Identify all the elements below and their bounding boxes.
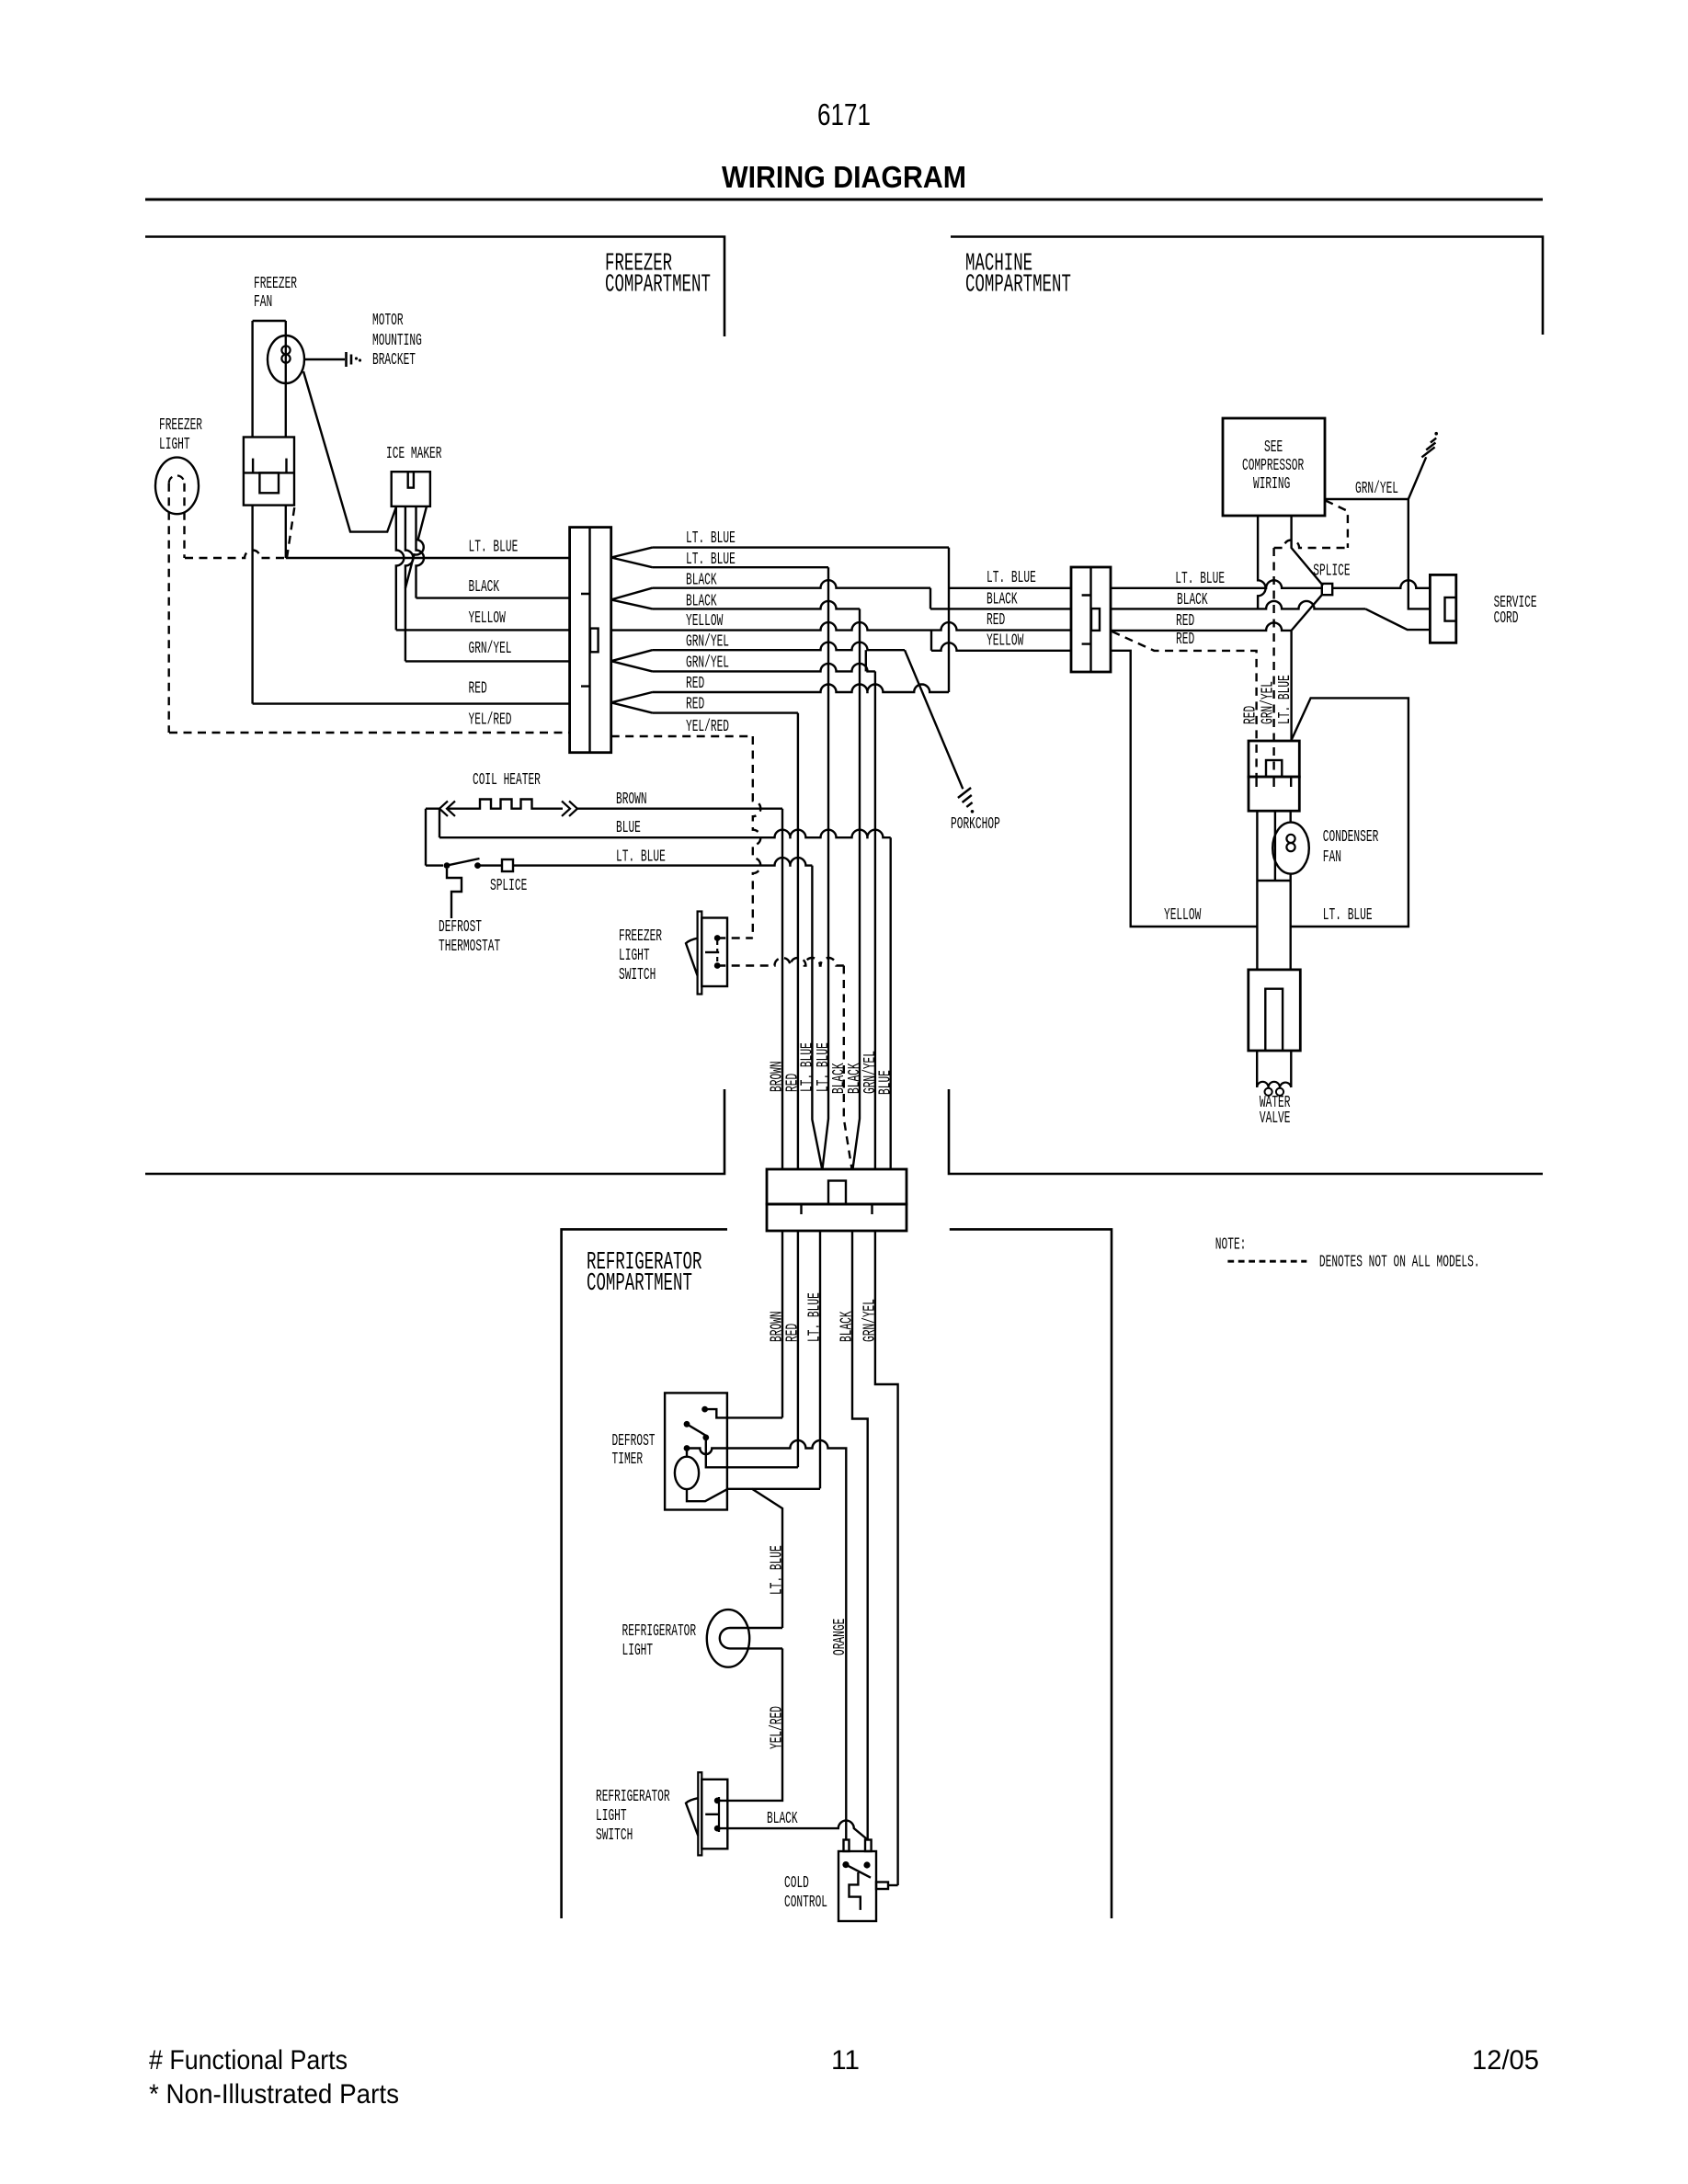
svg-text:* Non-Illustrated Parts: * Non-Illustrated Parts [149,2079,399,2110]
wire switch top contact to YEL/RED (dashed) [717,937,753,938]
splice crimp GRN/YEL pair [611,650,653,671]
svg-text:SEE: SEE [1264,438,1283,457]
svg-text:BLUE: BLUE [877,1070,895,1095]
wire BROWN below connector [781,1231,783,1417]
svg-text:GRN/YEL: GRN/YEL [686,633,729,652]
svg-text:SWITCH: SWITCH [596,1826,633,1845]
wire BLACK vertical solid [853,609,860,1168]
svg-text:RED: RED [987,611,1005,630]
svg-text:FAN: FAN [254,293,272,312]
svg-text:RED: RED [1242,706,1260,724]
svg-text:YELLOW: YELLOW [686,612,723,631]
svg-text:COMPARTMENT: COMPARTMENT [587,1270,692,1298]
refrigerator light switch [698,1772,701,1855]
wire RED row [253,702,570,704]
svg-text:MOTOR: MOTOR [372,312,404,330]
freezer light switch [698,912,702,995]
wire splice to LT. BLUE vertical [1292,595,1322,741]
svg-text:ORANGE: ORANGE [831,1619,850,1655]
svg-text:COMPARTMENT: COMPARTMENT [965,271,1071,299]
wire BLACK switch to cold control [717,1821,868,1840]
svg-text:YEL/RED: YEL/RED [686,718,729,736]
connector freezer [570,528,611,753]
wire splice to service cord LT. BLUE [1332,580,1430,588]
splice crimp RED pair [611,692,653,713]
wire GRN/YEL vertical [874,671,876,1169]
cold control [838,1851,876,1921]
svg-text:YEL/RED: YEL/RED [469,711,512,730]
wire BLACK row 1 [653,580,931,588]
svg-text:LT. BLUE: LT. BLUE [806,1292,825,1342]
defrost timer motor [686,1449,688,1457]
wire machine RED dashed [1112,631,1257,777]
ice maker pin 4 wire joining pin 2 [405,506,427,588]
ice maker pin 3 wire to BLACK row [416,506,425,598]
svg-text:DENOTES NOT ON ALL MODELS.: DENOTES NOT ON ALL MODELS. [1319,1254,1480,1272]
svg-text:BROWN: BROWN [616,791,647,809]
freezer light [155,458,199,515]
svg-text:FREEZER: FREEZER [619,927,662,946]
wire machine LT. BLUE to splice [1111,580,1322,588]
machine compartment border top [951,237,1543,336]
svg-text:LIGHT: LIGHT [159,436,190,454]
freezer compartment border bottom [145,1089,724,1174]
wire YELLOW drop at x1013 [930,631,932,651]
wire ORANGE from timer [687,1440,846,1840]
svg-text:GRN/YEL: GRN/YEL [861,1299,879,1342]
svg-text:BLACK: BLACK [469,578,500,597]
service cord [1430,574,1455,643]
wire compressor box left output [1258,516,1266,609]
wire GRN/YEL dashed from compressor box [1326,501,1348,549]
svg-text:MOUNTING: MOUNTING [372,332,422,350]
svg-text:VALVE: VALVE [1260,1109,1291,1128]
coil heater circuit left side [426,809,439,866]
freezer fan motor [268,336,304,383]
svg-text:FAN: FAN [1323,848,1341,867]
svg-text:SPLICE: SPLICE [1313,562,1350,580]
wire compressor box right output to splice [1292,516,1323,586]
svg-text:LT. BLUE: LT. BLUE [616,848,666,867]
wire RED below connector [797,1231,799,1467]
water valve coil [1257,1082,1291,1087]
freezer fan bracket box [244,438,294,506]
svg-text:LT. BLUE: LT. BLUE [1175,570,1225,588]
refrigerator compartment border left [562,1229,727,1918]
connector refrigerator harness [767,1169,907,1204]
wire freezer light left lead YEL/RED (dashed) [167,483,169,733]
svg-text:GRN/YEL: GRN/YEL [1355,480,1398,498]
svg-text:LT. BLUE: LT. BLUE [1276,675,1295,724]
svg-text:WIRING DIAGRAM: WIRING DIAGRAM [722,160,966,194]
wire BLUE vertical [890,837,892,1169]
wire LT. BLUE loop [1291,698,1409,927]
svg-text:COLD: COLD [784,1874,809,1893]
splice (machine) [1322,584,1332,595]
svg-text:LIGHT: LIGHT [596,1807,627,1826]
svg-text:CONTROL: CONTROL [784,1894,827,1912]
connector machine [1071,567,1111,672]
wire YEL/RED vertical (dashed) [753,736,761,938]
wire motor to ice maker pin 1 [303,371,396,532]
wire machine LT. BLUE row [949,587,1071,589]
svg-text:# Functional Parts: # Functional Parts [149,2045,348,2076]
svg-text:LT. BLUE: LT. BLUE [987,569,1036,587]
svg-text:LIGHT: LIGHT [622,1642,654,1660]
wire LT. BLUE vertical 2 [823,567,828,1168]
splice crimp LT. BLUE pair [611,548,653,568]
svg-text:LT. BLUE: LT. BLUE [769,1545,787,1595]
ice maker [392,472,430,506]
title rule [145,199,1543,201]
svg-text:LT. BLUE: LT. BLUE [686,529,736,548]
wire BLACK row [416,597,570,598]
svg-text:6171: 6171 [817,97,871,131]
svg-text:WIRING: WIRING [1253,475,1290,494]
svg-text:CONDENSER: CONDENSER [1323,828,1379,847]
svg-text:COMPRESSOR: COMPRESSOR [1242,457,1304,475]
freezer compartment border top [145,237,724,337]
wire GRN/YEL row 2 down to bundle [653,664,875,672]
wire YEL/RED row to connector (dashed) [169,732,570,734]
wire to porkchop [905,650,963,789]
svg-text:REFRIGERATOR: REFRIGERATOR [596,1788,670,1806]
wire machine YELLOW row [931,643,1071,651]
wire YELLOW row [396,629,570,631]
svg-text:BLACK: BLACK [838,1311,857,1342]
svg-text:GRN/YEL: GRN/YEL [686,654,729,673]
splice crimp BLACK pair [611,588,653,609]
wire LT. BLUE to refrigerator light [752,1489,782,1628]
see compressor wiring box [1223,418,1325,516]
wire machine BLACK row [930,608,1071,609]
svg-text:TIMER: TIMER [612,1450,644,1469]
wire BLACK below connector [852,1231,868,1840]
svg-text:CORD: CORD [1494,609,1519,628]
svg-text:RED: RED [686,675,704,693]
svg-text:LT. BLUE: LT. BLUE [1323,906,1373,925]
wire GRN/YEL to ground [1325,457,1426,499]
wire machine RED solid [1111,622,1292,631]
svg-text:LIGHT: LIGHT [619,947,650,965]
wire BLACK vertical dashed [844,966,852,1169]
svg-text:DEFROST: DEFROST [612,1432,656,1450]
freezer fan rails [253,321,286,438]
svg-text:REFRIGERATOR: REFRIGERATOR [622,1622,697,1641]
wire fan right rail to LT.BLUE row [285,506,287,558]
ice maker pin 1 wire to YELLOW row [396,506,405,631]
svg-text:RED: RED [1176,631,1194,649]
wire LT. BLUE thermostat row [426,864,443,866]
condenser fan [1257,811,1290,970]
svg-text:NOTE:: NOTE: [1215,1236,1247,1255]
svg-text:THERMOSTAT: THERMOSTAT [439,938,500,956]
wire BROWN vertical [781,809,783,1169]
wire BLACK row 2 down to bundle [653,601,861,609]
svg-text:SPLICE: SPLICE [490,877,527,895]
wire GRN/YEL row [405,660,570,662]
svg-text:ICE MAKER: ICE MAKER [386,445,442,463]
wire LT. BLUE vertical 1 [812,866,822,1168]
wire LT. BLUE row [286,557,570,559]
svg-text:FREEZER: FREEZER [159,416,202,435]
svg-text:GRN/YEL: GRN/YEL [1260,681,1278,724]
wire LT. BLUE row 1 to machine connector [653,546,950,548]
coil heater element BROWN row [426,808,428,810]
svg-text:BRACKET: BRACKET [372,351,416,370]
svg-text:FREEZER: FREEZER [254,275,297,293]
svg-text:YEL/RED: YEL/RED [769,1706,787,1749]
svg-text:RED: RED [686,696,704,714]
porkchop ground symbol [958,788,973,807]
wire motor to bracket [304,358,345,360]
svg-text:YELLOW: YELLOW [987,632,1023,651]
ground symbol (service ground) [1421,438,1436,458]
svg-text:GRN/YEL: GRN/YEL [469,640,512,658]
svg-text:BLUE: BLUE [616,819,641,837]
ice maker pin 2 wire to GRN/YEL row [405,506,414,662]
svg-text:RED: RED [783,1324,802,1342]
wire GRN/YEL row 1 [653,643,906,651]
svg-text:PORKCHOP: PORKCHOP [951,815,1000,834]
motor mounting bracket ground [347,352,352,367]
svg-text:COIL HEATER: COIL HEATER [473,771,541,790]
svg-text:12/05: 12/05 [1472,2045,1539,2076]
wire GRN/YEL to service cord [1409,499,1431,609]
defrost timer [665,1393,727,1509]
svg-text:BLACK: BLACK [1177,591,1208,609]
wire freezer light right lead (dashed) [183,483,185,558]
wire YEL/RED dashed right of connector [611,735,753,737]
wire LT. BLUE below connector [819,1231,821,1488]
wire RED vertical [797,713,799,1169]
svg-text:RED: RED [469,680,487,699]
svg-text:DEFROST: DEFROST [439,918,482,937]
svg-text:YELLOW: YELLOW [1164,906,1201,925]
svg-text:YELLOW: YELLOW [469,609,506,628]
wire machine BLACK to service cord [1111,601,1365,609]
wire switch bottom contact to BLACK (dashed) [717,958,844,966]
wire GRN/YEL below connector [875,1231,898,1885]
wire RED row 2 down to bundle [653,711,798,713]
svg-text:11: 11 [831,2045,860,2076]
wire YELLOW/RED through row [611,622,1071,631]
wire YEL/RED light to switch [717,1648,782,1801]
defrost thermostat [444,862,451,869]
wire fan left rail to RED row [251,506,253,704]
machine compartment border bottom [949,1089,1543,1174]
svg-text:BLACK: BLACK [987,591,1018,609]
splice (defrost thermostat) [502,859,513,871]
wire machine YELLOW down [1111,651,1257,927]
refrigerator compartment border right [950,1229,1112,1918]
svg-text:SWITCH: SWITCH [619,966,656,984]
wire BLUE row [439,830,891,838]
connector compressor [1249,741,1299,777]
svg-text:COMPARTMENT: COMPARTMENT [605,271,711,299]
wire RED row 1 [653,685,950,693]
svg-text:LT. BLUE: LT. BLUE [469,539,519,557]
wire LT. BLUE row 2 down to bundle [653,566,829,568]
svg-text:BLACK: BLACK [767,1810,798,1828]
refrigerator light [707,1610,749,1667]
svg-text:RED: RED [1176,612,1194,631]
water valve [1249,970,1301,1051]
wire LT. BLUE drop at x1032 [948,548,950,692]
